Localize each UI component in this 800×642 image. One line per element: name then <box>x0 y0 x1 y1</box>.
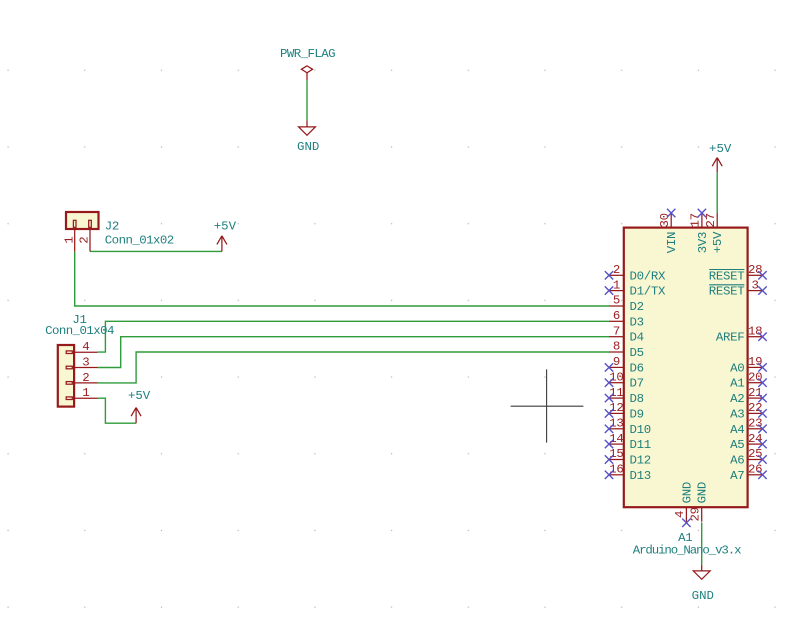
J1 reference <box>72 313 86 327</box>
svg-text:3: 3 <box>752 278 759 292</box>
svg-text:D8: D8 <box>630 392 644 406</box>
svg-text:GND: GND <box>680 482 694 503</box>
svg-text:Conn_01x04: Conn_01x04 <box>45 324 114 338</box>
svg-text:22: 22 <box>748 401 762 415</box>
svg-text:D1/TX: D1/TX <box>630 285 667 299</box>
pin 1 (D1/TX) <box>605 278 666 298</box>
power flag PWR_FLAG <box>280 47 335 80</box>
power symbol +5V (top right) <box>709 142 732 173</box>
svg-text:15: 15 <box>609 447 623 461</box>
J2 pin 1 <box>62 229 76 251</box>
svg-text:12: 12 <box>609 401 623 415</box>
pin 16 (D13) <box>605 463 651 483</box>
pin 28 (RESET) <box>709 263 767 283</box>
svg-text:D4: D4 <box>630 331 644 345</box>
svg-text:GND: GND <box>692 589 714 603</box>
svg-text:6: 6 <box>613 309 620 323</box>
svg-text:7: 7 <box>613 324 620 338</box>
svg-text:GND: GND <box>696 482 710 503</box>
svg-text:D2: D2 <box>630 300 644 314</box>
pin 25 (A6) <box>730 447 767 467</box>
svg-text:D13: D13 <box>630 469 651 483</box>
pin 18 (AREF) <box>716 324 767 344</box>
pin 9 (D6) <box>605 355 644 375</box>
svg-text:5: 5 <box>613 294 620 308</box>
svg-text:A3: A3 <box>730 407 744 421</box>
svg-text:3V3: 3V3 <box>696 232 710 253</box>
svg-text:PWR_FLAG: PWR_FLAG <box>280 47 335 61</box>
J1 pin 4 <box>74 340 97 354</box>
pin 27 (+5V) <box>704 213 725 253</box>
svg-text:A6: A6 <box>730 454 744 468</box>
pin 2 (D0/RX) <box>605 263 666 283</box>
svg-text:D9: D9 <box>630 407 644 421</box>
pin 24 (A5) <box>730 432 767 452</box>
svg-text:28: 28 <box>748 263 762 277</box>
svg-text:A4: A4 <box>730 423 744 437</box>
J1 pin 2 <box>74 371 97 385</box>
pin 3 (RESET) <box>709 278 767 298</box>
svg-text:D5: D5 <box>630 346 644 360</box>
power symbol GND (top) <box>297 120 319 153</box>
J1 pin 1 <box>74 386 97 400</box>
pin 6 (D3) <box>609 309 644 329</box>
svg-text:2: 2 <box>613 263 620 277</box>
svg-text:A7: A7 <box>730 469 744 483</box>
pin 7 (D4) <box>609 324 644 344</box>
svg-text:A0: A0 <box>730 361 744 375</box>
J1 pin 3 <box>74 356 97 370</box>
svg-text:A5: A5 <box>730 438 744 452</box>
wire PWR_FLAG to GND <box>306 80 308 120</box>
J1 value <box>45 324 114 338</box>
svg-text:RESET: RESET <box>709 269 745 283</box>
svg-text:26: 26 <box>748 463 762 477</box>
wire J1 pin2 to D5 <box>98 352 610 383</box>
svg-text:4: 4 <box>82 340 89 354</box>
pin 20 (A1) <box>730 370 767 390</box>
svg-text:18: 18 <box>748 324 762 338</box>
svg-text:4: 4 <box>673 511 687 518</box>
svg-text:19: 19 <box>748 355 762 369</box>
pin 23 (A4) <box>730 417 767 437</box>
pin 26 (A7) <box>730 463 767 483</box>
svg-text:14: 14 <box>609 432 623 446</box>
pin 5 (D2) <box>609 294 644 314</box>
pin 29 (GND) <box>689 482 710 522</box>
A1 value <box>633 544 741 558</box>
pin 17 (3V3) <box>689 209 710 253</box>
wire J1 pin3 to D4 <box>98 337 610 368</box>
pin 8 (D5) <box>609 340 644 360</box>
svg-text:3: 3 <box>82 356 89 370</box>
power symbol GND (bottom) <box>692 565 714 603</box>
wire J1 pin1 to +5V <box>98 398 137 423</box>
wire J2 pin1 to D2 <box>75 251 609 306</box>
svg-text:1: 1 <box>62 237 76 244</box>
svg-text:1: 1 <box>82 386 89 400</box>
pin 13 (D10) <box>605 417 651 437</box>
svg-text:D12: D12 <box>630 454 651 468</box>
pin 10 (D7) <box>605 370 644 390</box>
cursor crosshair <box>511 369 584 442</box>
svg-text:+5V: +5V <box>709 142 732 156</box>
svg-text:D10: D10 <box>630 423 651 437</box>
connector J2 body <box>66 212 99 229</box>
pin 30 (VIN) <box>658 209 679 253</box>
svg-text:13: 13 <box>609 417 623 431</box>
pin 19 (A0) <box>730 355 767 375</box>
connector J1 body <box>58 345 74 407</box>
J2 pin 2 <box>78 229 92 251</box>
svg-text:AREF: AREF <box>716 331 745 345</box>
svg-text:20: 20 <box>748 370 762 384</box>
svg-text:27: 27 <box>704 213 718 227</box>
wire pin29 to GND <box>701 522 703 564</box>
J2 value <box>105 234 174 248</box>
svg-text:+5V: +5V <box>711 231 725 253</box>
wire +5V to pin27 <box>716 172 718 213</box>
J2 reference <box>105 220 119 234</box>
svg-text:+5V: +5V <box>214 220 237 234</box>
power symbol +5V (near J1) <box>128 389 151 423</box>
svg-text:24: 24 <box>748 432 762 446</box>
pin 4 (GND) <box>673 482 694 527</box>
svg-text:D0/RX: D0/RX <box>630 269 667 283</box>
module A1 Arduino_Nano_v3.x body <box>624 228 748 508</box>
svg-text:29: 29 <box>689 507 703 521</box>
pin 14 (D11) <box>605 432 651 452</box>
pin 11 (D8) <box>605 386 644 406</box>
pin 21 (A2) <box>730 386 767 406</box>
svg-text:2: 2 <box>78 237 92 244</box>
svg-text:D3: D3 <box>630 315 644 329</box>
svg-text:A2: A2 <box>730 392 744 406</box>
pin 15 (D12) <box>605 447 651 467</box>
svg-text:9: 9 <box>613 355 620 369</box>
svg-text:1: 1 <box>613 278 620 292</box>
svg-text:23: 23 <box>748 417 762 431</box>
svg-text:21: 21 <box>748 386 762 400</box>
svg-text:10: 10 <box>609 370 623 384</box>
power symbol +5V (near J2) <box>214 220 237 252</box>
svg-text:J2: J2 <box>105 220 119 234</box>
svg-text:GND: GND <box>297 140 319 154</box>
pin 22 (A3) <box>730 401 767 421</box>
svg-text:D11: D11 <box>630 438 651 452</box>
pin 12 (D9) <box>605 401 644 421</box>
svg-text:Arduino_Nano_v3.x: Arduino_Nano_v3.x <box>633 544 741 558</box>
svg-text:+5V: +5V <box>128 389 151 403</box>
svg-text:VIN: VIN <box>665 232 679 253</box>
svg-text:Conn_01x02: Conn_01x02 <box>105 234 174 248</box>
svg-text:D6: D6 <box>630 361 644 375</box>
wire J1 pin4 to D3 <box>98 321 610 352</box>
svg-text:A1: A1 <box>730 377 744 391</box>
svg-text:D7: D7 <box>630 377 644 391</box>
svg-text:11: 11 <box>609 386 623 400</box>
wire J2 pin2 to +5V <box>90 250 222 252</box>
svg-text:2: 2 <box>82 371 89 385</box>
svg-text:8: 8 <box>613 340 620 354</box>
svg-text:16: 16 <box>609 463 623 477</box>
svg-text:25: 25 <box>748 447 762 461</box>
svg-text:RESET: RESET <box>709 285 745 299</box>
A1 reference <box>678 531 692 545</box>
